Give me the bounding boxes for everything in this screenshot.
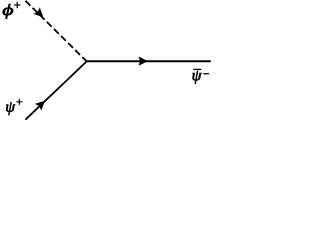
- outgoing fermion propagator psi-bar-minus (horizontal line from vertex): [87, 60, 211, 62]
- overbar of psi-bar: [193, 68, 201, 70]
- scalar propagator phi+ (dashed line, top-left to vertex): [26, 1, 87, 62]
- superscript plus of phi+: [14, 2, 21, 9]
- arrowhead on horizontal fermion line: [139, 57, 149, 66]
- label psi-bar (right end, below line): [193, 71, 202, 84]
- superscript minus of psi-bar-minus: [203, 73, 209, 75]
- label psi (bottom left): [6, 102, 15, 115]
- fermion propagator psi+ (solid line, bottom-left to vertex): [25, 61, 86, 119]
- arrowhead on scalar line: [33, 7, 46, 20]
- label phi (top left): [3, 4, 13, 19]
- superscript plus of psi+: [16, 99, 22, 105]
- arrowhead on fermion line psi+: [35, 97, 48, 110]
